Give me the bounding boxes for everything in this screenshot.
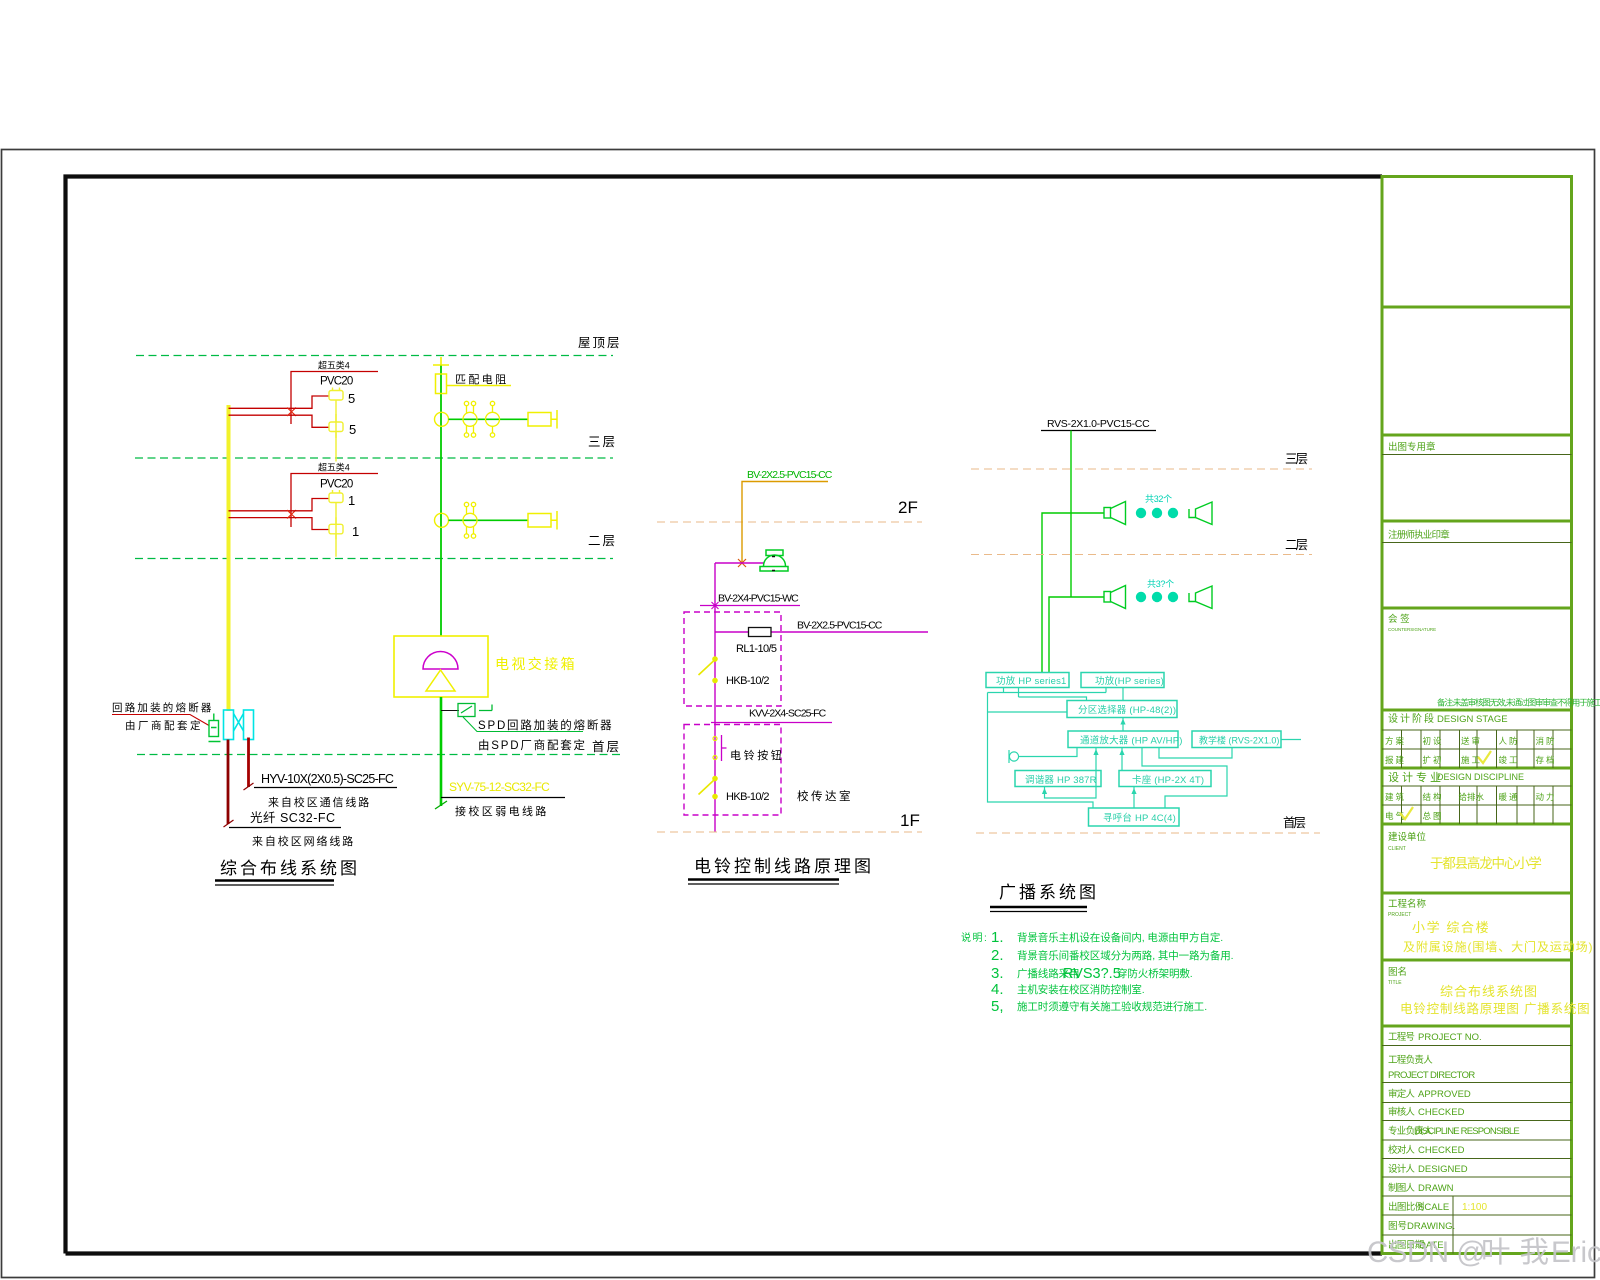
svg-text:SCALE: SCALE [1418, 1202, 1449, 1213]
TV junction box [394, 636, 488, 697]
H3 to selector left [988, 711, 1068, 713]
svg-text:共32个: 共32个 [1145, 494, 1172, 504]
svg-text:COUNTERSIGNATURE: COUNTERSIGNATURE [1388, 627, 1436, 632]
leader junction cross [712, 602, 719, 609]
knife switch upper [699, 656, 718, 683]
loop dots 3F [1136, 508, 1178, 518]
svg-text:总图: 总图 [1423, 811, 1444, 821]
paging link路 [1142, 748, 1227, 809]
grid verticals (discipline table) [1402, 786, 1554, 824]
svg-text:光纤 SC32-FC: 光纤 SC32-FC [250, 811, 336, 825]
deck feed wire w/ arrow [1121, 748, 1123, 771]
svg-text:注册师执业印章: 注册师执业印章 [1388, 529, 1450, 541]
svg-text:背景音乐主机设在设备间内, 电源由甲方自定.: 背景音乐主机设在设备间内, 电源由甲方自定. [1017, 931, 1223, 944]
svg-text:回路加装的熔断器: 回路加装的熔断器 [112, 701, 214, 714]
title block outer frame [1382, 177, 1572, 1254]
outgoing building box [1192, 731, 1281, 748]
paging console box [1089, 808, 1180, 826]
svg-text:5,: 5, [991, 998, 1004, 1015]
SPD surge protector [458, 704, 492, 717]
svg-text:APPROVED: APPROVED [1418, 1089, 1471, 1100]
checkmark construction [1478, 751, 1491, 763]
microphone [1009, 750, 1019, 763]
cable label line 2F [291, 474, 378, 528]
svg-text:SYV-75-12-SC32-FC: SYV-75-12-SC32-FC [449, 780, 550, 794]
svg-text:消防: 消防 [1536, 736, 1557, 746]
svg-text:PVC20: PVC20 [320, 479, 353, 491]
matching resistor [436, 374, 447, 394]
drawing frame (thick black) [66, 177, 1383, 1254]
bus H1 [988, 688, 1107, 698]
svg-text:电铃控制线路原理图: 电铃控制线路原理图 [694, 857, 874, 876]
svg-text:DESIGN DISCIPLINE: DESIGN DISCIPLINE [1437, 772, 1524, 782]
svg-text:二层: 二层 [588, 534, 617, 548]
title underline double [215, 879, 334, 881]
scale/drawing/date value column divider [1452, 1196, 1454, 1254]
junction cross bell feed [738, 559, 746, 567]
svg-text:5: 5 [349, 422, 356, 437]
svg-text:审核人: 审核人 [1388, 1106, 1415, 1118]
svg-text:送审: 送审 [1461, 736, 1482, 746]
svg-text:审定人: 审定人 [1388, 1088, 1415, 1100]
CATV riser [440, 365, 442, 636]
wire pair 3F [229, 408, 292, 415]
grid verticals (design stage table) [1402, 730, 1554, 768]
HYV underline [254, 787, 397, 789]
TV box dome [423, 652, 458, 670]
svg-text:HYV-10X(2X0.5)-SC25-FC: HYV-10X(2X0.5)-SC25-FC [261, 772, 394, 786]
svg-text:HKB-10/2: HKB-10/2 [726, 675, 769, 687]
svg-text:施工时须遵守有关施工验收规范进行施工.: 施工时须遵守有关施工验收规范进行施工. [1017, 1000, 1207, 1013]
svg-text:共3?个: 共3?个 [1147, 579, 1174, 589]
svg-text:电铃按钮: 电铃按钮 [730, 748, 784, 762]
svg-text:图号: 图号 [1388, 1221, 1407, 1232]
svg-text:建筑: 建筑 [1385, 792, 1406, 802]
svg-text:备注:未盖审核图无效,未通过图审审查不得用于施工: 备注:未盖审核图无效,未通过图审审查不得用于施工 [1437, 698, 1600, 708]
bus H2 to selector [1019, 697, 1087, 701]
wire pair 2F [229, 511, 292, 518]
svg-text:5: 5 [348, 391, 355, 406]
loop fuse [209, 714, 221, 742]
svg-text:首层: 首层 [592, 740, 621, 754]
svg-text:接校区弱电线路: 接校区弱电线路 [455, 804, 549, 818]
wire to outlet 5a [292, 396, 330, 408]
mic wire [1019, 748, 1077, 757]
telecom line end tick [224, 820, 234, 827]
svg-text:调谐器 HP 387R: 调谐器 HP 387R [1025, 775, 1097, 786]
floor line 2F (middle) [657, 521, 922, 523]
svg-text:通道放大器 (HP AV/HP): 通道放大器 (HP AV/HP) [1080, 735, 1183, 747]
svg-text:1.: 1. [991, 929, 1004, 946]
terminator 2F [528, 511, 557, 530]
svg-text:建设单位: 建设单位 [1388, 831, 1427, 843]
tap circle 3F [435, 412, 449, 426]
svg-text:于都县高龙中心小学: 于都县高龙中心小学 [1430, 855, 1541, 871]
wire to outlet 1b [292, 518, 330, 530]
wire to outlet 5b [292, 415, 330, 427]
floor line 3F [135, 457, 613, 459]
fiber patch cabinet [224, 710, 254, 740]
svg-text:工程负责人: 工程负责人 [1388, 1054, 1433, 1066]
svg-text:CSDN @叶我Eric: CSDN @叶我Eric [1367, 1236, 1600, 1269]
svg-text:卡座 (HP-2X 4T): 卡座 (HP-2X 4T) [1132, 774, 1204, 786]
svg-text:屋顶层: 屋顶层 [578, 336, 622, 350]
svg-text:竣工: 竣工 [1499, 755, 1520, 765]
svg-text:KVV-2X4-SC25-FC: KVV-2X4-SC25-FC [749, 708, 827, 720]
svg-text:PVC20: PVC20 [320, 376, 353, 388]
trunk wire (green) [1070, 431, 1072, 598]
svg-text:3.: 3. [991, 965, 1004, 982]
control wire vertical [714, 563, 716, 832]
title block thick dividers [1382, 307, 1572, 1026]
amp-box5 bottom link [1159, 748, 1232, 759]
push button [713, 735, 727, 761]
riser bus (yellow) [227, 405, 231, 711]
CATV feeder below box [440, 697, 443, 806]
deck-paging link w/ arrow [1133, 787, 1135, 809]
svg-text:小学 综合楼: 小学 综合楼 [1412, 920, 1490, 935]
data outlet 1a [329, 490, 343, 540]
distribution line 2F [449, 519, 529, 521]
svg-text:2F: 2F [898, 498, 918, 517]
terminator 3F [528, 410, 557, 429]
svg-text:CHECKED: CHECKED [1418, 1145, 1465, 1156]
SPD stub wire [441, 710, 459, 712]
svg-text:1:100: 1:100 [1462, 1202, 1487, 1213]
svg-text:报建: 报建 [1385, 755, 1406, 765]
floor line 3F (right) [971, 468, 1312, 470]
svg-text:设计专业: 设计专业 [1388, 770, 1444, 784]
svg-text:DRAWING.: DRAWING. [1407, 1221, 1455, 1232]
amplifier box 1 [986, 673, 1069, 688]
svg-text:电铃控制线路原理图 广播系统图: 电铃控制线路原理图 广播系统图 [1400, 1001, 1590, 1016]
svg-text:BV-2X4-PVC15-WC: BV-2X4-PVC15-WC [718, 593, 799, 605]
fuse note leader [112, 715, 209, 726]
TV box amplifier triangle [426, 670, 455, 691]
selector-amp link w/ arrow [1122, 718, 1124, 732]
speaker R 3F [1189, 502, 1212, 525]
data outlet 5b [329, 414, 343, 462]
loop dots 2F [1136, 592, 1178, 602]
outgoing line [1281, 739, 1301, 741]
svg-text:初设: 初设 [1423, 736, 1444, 746]
incoming telecom line [227, 740, 230, 825]
matching resistor label leader [447, 385, 512, 387]
svg-text:工程名称: 工程名称 [1388, 898, 1427, 910]
svg-text:电视交接箱: 电视交接箱 [495, 656, 577, 672]
right title underline double [990, 906, 1087, 908]
svg-text:会 签: 会 签 [1388, 613, 1410, 625]
branch wire 2F speakers [1049, 597, 1104, 673]
svg-text:图名: 图名 [1388, 966, 1407, 978]
svg-text:穿防火桥架明敷.: 穿防火桥架明敷. [1117, 967, 1193, 980]
svg-text:PROJECT DIRECTOR: PROJECT DIRECTOR [1388, 1070, 1475, 1081]
svg-text:广播系统图: 广播系统图 [999, 883, 1099, 902]
svg-text:制图人: 制图人 [1388, 1182, 1415, 1194]
title block thin row lines [1382, 455, 1572, 1236]
svg-text:综合布线系统图: 综合布线系统图 [1440, 984, 1538, 999]
svg-text:设计阶段: 设计阶段 [1388, 712, 1436, 725]
svg-text:校传达室: 校传达室 [797, 789, 853, 803]
svg-text:及附属设施(围墙、大门及运动场): 及附属设施(围墙、大门及运动场) [1403, 939, 1593, 954]
svg-text:TITLE: TITLE [1388, 980, 1402, 986]
fuse RL1-10/5 [749, 628, 772, 637]
wire to outlet 1a [292, 499, 330, 511]
svg-text:功放 HP series1: 功放 HP series1 [996, 675, 1067, 687]
svg-text:二层: 二层 [1285, 538, 1308, 552]
svg-text:HKB-10/2: HKB-10/2 [726, 791, 769, 803]
svg-text:超五类4: 超五类4 [318, 360, 350, 371]
svg-text:人防: 人防 [1499, 736, 1520, 746]
floor line 1F (middle) [657, 831, 922, 833]
svg-text:SPD回路加装的熔断器: SPD回路加装的熔断器 [478, 718, 613, 732]
data outlet 1b [329, 517, 343, 557]
duty room box (dashed) [684, 725, 781, 816]
svg-text:PROJECT NO.: PROJECT NO. [1418, 1032, 1482, 1043]
svg-text:1: 1 [348, 493, 355, 508]
svg-text:超五类4: 超五类4 [318, 462, 350, 473]
svg-text:三层: 三层 [1285, 452, 1308, 466]
svg-text:三层: 三层 [588, 435, 617, 449]
zone selector box [1067, 701, 1177, 718]
svg-text:由SPD厂商配套定: 由SPD厂商配套定 [478, 738, 587, 752]
control box (dashed) [684, 612, 781, 706]
knife switch lower [699, 776, 718, 800]
amplifier box 2 [1081, 673, 1164, 688]
svg-text:教学楼 (RVS-2X1.0): 教学楼 (RVS-2X1.0) [1199, 735, 1279, 746]
svg-text:PROJECT: PROJECT [1388, 912, 1411, 918]
middle title underline double [688, 878, 839, 880]
checkmark electrical [1400, 807, 1413, 819]
svg-text:出图专用章: 出图专用章 [1388, 441, 1436, 453]
svg-text:4.: 4. [991, 981, 1004, 998]
svg-text:综合布线系统图: 综合布线系统图 [220, 859, 360, 878]
svg-text:DESIGN STAGE: DESIGN STAGE [1437, 714, 1508, 725]
floor line 2F [135, 558, 613, 560]
svg-text:给排水: 给排水 [1459, 792, 1485, 802]
speaker L 3F [1104, 502, 1126, 525]
floor line 1F [137, 754, 624, 756]
svg-text:DRAWN: DRAWN [1418, 1183, 1454, 1194]
fuse branch wire [715, 631, 928, 633]
svg-text:BV-2X2.5-PVC15-CC: BV-2X2.5-PVC15-CC [797, 620, 883, 632]
left trunk wire [988, 693, 1094, 809]
svg-text:存档: 存档 [1536, 755, 1557, 765]
branch wire 3F speakers [1042, 513, 1104, 673]
bell branch wire [715, 562, 764, 564]
splitter 2F [463, 502, 477, 538]
junction cross 3F [287, 408, 296, 417]
svg-text:寻呼台 HP 4C(4): 寻呼台 HP 4C(4) [1103, 812, 1176, 824]
svg-text:校对人: 校对人 [1388, 1144, 1415, 1156]
svg-text:RL1-10/5: RL1-10/5 [736, 643, 777, 655]
svg-text:结构: 结构 [1423, 792, 1444, 802]
svg-text:RVS-2X1.0-PVC15-CC: RVS-2X1.0-PVC15-CC [1047, 418, 1150, 430]
svg-text:方案: 方案 [1385, 736, 1406, 746]
svg-text:动力: 动力 [1536, 792, 1557, 802]
svg-text:DISCIPLINE RESPONSIBLE: DISCIPLINE RESPONSIBLE [1414, 1126, 1519, 1137]
svg-text:首层: 首层 [1283, 816, 1306, 830]
splitter B 3F [486, 401, 500, 437]
floor line 1F (right) [976, 832, 1320, 834]
CATV riser top tee [433, 357, 449, 365]
KVV leader [711, 722, 832, 724]
floor line 2F (right) [971, 554, 1312, 556]
tuner box [1015, 771, 1101, 787]
svg-text:CHECKED: CHECKED [1418, 1107, 1465, 1118]
data outlet 5a [329, 388, 343, 439]
floor line roof [136, 355, 613, 357]
tap circle 2F [435, 513, 449, 527]
tape deck box [1119, 771, 1211, 787]
svg-text:1: 1 [352, 524, 359, 539]
riser wire orange [742, 482, 828, 564]
svg-text:说明:: 说明: [961, 931, 988, 944]
amp2 to selector stub [1122, 688, 1124, 701]
svg-text:BV-2X2.5-PVC15-CC: BV-2X2.5-PVC15-CC [747, 469, 833, 481]
svg-text:CLIENT: CLIENT [1388, 846, 1406, 852]
svg-text:来自校区通信线路: 来自校区通信线路 [268, 795, 371, 809]
splitter A 3F [463, 401, 477, 437]
junction cross 2F [287, 510, 296, 519]
tuner feed wire w/ arrows [1045, 748, 1097, 799]
svg-text:主机安装在校区消防控制室.: 主机安装在校区消防控制室. [1017, 983, 1145, 996]
SPD note leader [463, 717, 583, 732]
svg-text:2.: 2. [991, 947, 1004, 964]
channel amplifier box [1068, 731, 1178, 748]
svg-text:RVS3?.5: RVS3?.5 [1063, 966, 1121, 982]
electric bell [760, 550, 788, 571]
bell base dots [772, 557, 775, 571]
svg-text:扩初: 扩初 [1423, 755, 1444, 765]
fiber underline [229, 827, 341, 829]
svg-text:功放(HP series): 功放(HP series) [1095, 675, 1164, 687]
svg-text:1F: 1F [900, 811, 920, 830]
svg-text:由厂商配套定: 由厂商配套定 [125, 719, 203, 732]
BV-2X4 leader [700, 605, 800, 607]
svg-text:匹配电阻: 匹配电阻 [455, 373, 509, 386]
SYV underline [441, 797, 565, 799]
RVS underline [1041, 430, 1156, 432]
svg-text:设计人: 设计人 [1388, 1163, 1415, 1175]
svg-text:分区选择器 (HP-48(2)): 分区选择器 (HP-48(2)) [1078, 704, 1176, 716]
network line end tick [244, 783, 254, 790]
cable label line 3F [291, 372, 378, 425]
speaker R 2F [1189, 586, 1212, 609]
svg-text:DESIGNED: DESIGNED [1418, 1164, 1468, 1175]
incoming network line [247, 738, 250, 788]
feeder end tick [435, 801, 447, 809]
speaker L 2F [1104, 586, 1126, 609]
distribution line 3F [449, 418, 529, 420]
svg-text:来自校区网络线路: 来自校区网络线路 [252, 834, 355, 848]
svg-text:暖通: 暖通 [1499, 792, 1520, 802]
svg-text:背景音乐间番校区域分为两路, 其中一路为备用.: 背景音乐间番校区域分为两路, 其中一路为备用. [1017, 949, 1233, 962]
svg-text:工程号: 工程号 [1388, 1032, 1414, 1043]
